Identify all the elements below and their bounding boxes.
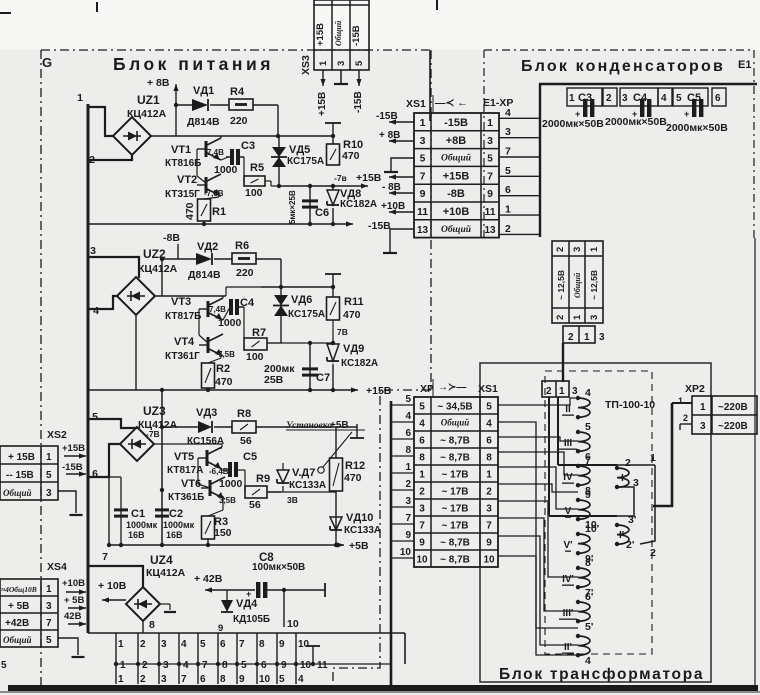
svg-text:КС182А: КС182А: [341, 358, 378, 369]
svg-text:1: 1: [118, 674, 124, 685]
border transformer block: [480, 363, 711, 682]
wire XS4 pin7: [68, 621, 86, 626]
svg-text:2': 2': [626, 539, 634, 551]
svg-text:+15В: +15В: [62, 443, 85, 454]
svg-text:1: 1: [118, 639, 124, 650]
svg-text:R1: R1: [212, 206, 226, 218]
svg-text:~ 17В: ~ 17В: [442, 487, 469, 498]
capacitor C4 block: [632, 99, 651, 119]
svg-text:КТ315Г: КТ315Г: [165, 189, 200, 200]
wire VT5 collector: [154, 444, 222, 447]
label 5 margin: [1, 660, 7, 671]
svg-text:-7,5В: -7,5В: [204, 189, 224, 198]
svg-text:Е1: Е1: [738, 59, 751, 71]
svg-text:6': 6': [585, 591, 593, 603]
svg-text:-15В: -15В: [351, 25, 362, 46]
svg-text:220: 220: [230, 115, 248, 127]
label -15В XS2: [62, 462, 83, 473]
resistor R6: [232, 240, 281, 287]
svg-text:1000: 1000: [219, 478, 243, 490]
svg-text:V': V': [563, 540, 572, 551]
transformer winding V': [562, 523, 599, 565]
svg-text:ХР2: ХР2: [685, 383, 705, 395]
svg-text:5: 5: [46, 470, 52, 481]
svg-text:VT5: VT5: [174, 451, 194, 463]
svg-text:4: 4: [419, 419, 425, 430]
transistor VT3: [165, 296, 226, 322]
resistor R12 (trimmer): [318, 427, 365, 547]
svg-text:7В: 7В: [337, 327, 348, 337]
svg-text:8: 8: [220, 674, 226, 685]
wire pin4 to UZ2: [88, 296, 118, 309]
svg-text:8': 8': [585, 557, 593, 569]
svg-text:16В: 16В: [128, 530, 145, 540]
svg-text:2: 2: [546, 386, 552, 397]
wire mid out ch1: [279, 184, 368, 188]
label -15В out ch1: [368, 220, 391, 232]
svg-text:1: 1: [420, 117, 426, 129]
svg-text:7: 7: [181, 674, 187, 685]
svg-text:7: 7: [487, 170, 493, 182]
wire XP left stubs: [391, 394, 414, 558]
node 7: [102, 551, 108, 563]
transformer winding I: [615, 457, 639, 489]
svg-text:+15В: +15В: [315, 23, 326, 46]
wire ch3 vertical bus: [160, 388, 164, 547]
svg-text:4: 4: [585, 655, 591, 667]
svg-text:9: 9: [486, 538, 492, 549]
svg-text:7: 7: [486, 521, 492, 532]
svg-text:R12: R12: [345, 460, 365, 472]
label +15В XS2: [62, 443, 85, 454]
rectifier UZ4: [126, 587, 160, 621]
svg-text:VД1: VД1: [193, 85, 214, 97]
svg-text:2000мк×50В: 2000мк×50В: [542, 118, 604, 130]
svg-text:Общий: Общий: [3, 488, 32, 498]
resistor R2: [202, 363, 233, 392]
svg-text:470: 470: [344, 472, 362, 484]
svg-text:VT1: VT1: [171, 144, 191, 156]
svg-text:Д814В: Д814В: [187, 116, 220, 128]
capacitor C5: [219, 447, 257, 490]
svg-text:КТ361Г: КТ361Г: [165, 351, 200, 362]
svg-text:5: 5: [354, 60, 365, 66]
border right edge: [754, 238, 756, 685]
zener VD9 КС182А: [327, 343, 378, 392]
svg-text:100мк×50В: 100мк×50В: [252, 562, 305, 573]
wire XP2 feed: [653, 403, 692, 506]
svg-text:R11: R11: [344, 296, 364, 308]
svg-text:5: 5: [420, 154, 426, 165]
svg-text:42В: 42В: [64, 611, 82, 622]
svg-text:100: 100: [245, 187, 263, 199]
resistor R8: [232, 408, 357, 447]
label -7В ch3: [146, 429, 160, 439]
wire XS2 pin5: [66, 471, 86, 476]
svg-text:25В: 25В: [264, 374, 284, 386]
svg-text:+15В: +15В: [443, 170, 470, 182]
svg-text:16В: 16В: [166, 530, 183, 540]
svg-text:2: 2: [606, 93, 612, 104]
svg-text:2000мк×50В: 2000мк×50В: [605, 116, 667, 128]
svg-text:7: 7: [405, 513, 411, 524]
capacitor C7: [302, 341, 330, 392]
svg-text:-7В: -7В: [146, 429, 160, 439]
svg-text:5: 5: [486, 402, 492, 413]
svg-text:150: 150: [214, 527, 232, 539]
svg-text:-15В: -15В: [444, 117, 468, 129]
svg-text:10: 10: [416, 555, 428, 566]
transformer winding III': [559, 591, 593, 633]
svg-text:-8В: -8В: [163, 232, 180, 244]
svg-text:4: 4: [181, 639, 187, 650]
svg-text:II': II': [564, 642, 572, 653]
label -15В row1: [376, 111, 398, 122]
svg-text:КС175А: КС175А: [288, 309, 325, 320]
svg-text:1: 1: [505, 204, 511, 216]
wire +8V arrow up ch1: [173, 84, 178, 136]
wire VT3 collector: [223, 287, 261, 298]
svg-text:9: 9: [419, 538, 425, 549]
wire ch3 left down: [107, 444, 111, 547]
label UZ1: [127, 93, 167, 120]
svg-text:Общий: Общий: [441, 224, 471, 235]
svg-text:470: 470: [215, 376, 233, 388]
svg-text:IV: IV: [563, 472, 573, 483]
svg-text:R5: R5: [250, 162, 264, 174]
wire R5 to output: [265, 181, 279, 186]
svg-text:+42В: +42В: [5, 618, 29, 629]
svg-text:VД9: VД9: [343, 343, 364, 355]
svg-text:КТ816Б: КТ816Б: [165, 158, 201, 169]
capacitor C5 block: [684, 99, 703, 119]
svg-text:~ 12,5В: ~ 12,5В: [556, 270, 566, 300]
node 11 terminal: [306, 646, 328, 671]
svg-text:+15В: +15В: [366, 385, 392, 397]
svg-text:5мк×25В: 5мк×25В: [288, 190, 297, 224]
wire XP1 to transformer: [562, 343, 564, 382]
svg-text:VД4: VД4: [236, 598, 258, 610]
capacitor C2: [155, 461, 195, 540]
svg-text:2: 2: [486, 487, 492, 498]
svg-text:I': I': [619, 530, 624, 541]
node 4: [93, 305, 99, 317]
svg-text:1: 1: [77, 92, 83, 104]
svg-text:С2: С2: [169, 508, 183, 520]
svg-text:1: 1: [584, 332, 590, 343]
wire bottom rail ch2: [88, 315, 358, 393]
label XP header: [420, 379, 498, 397]
svg-text:I: I: [621, 473, 624, 484]
capacitor C4: [218, 297, 255, 329]
svg-text:1: 1: [419, 470, 425, 481]
svg-text:3: 3: [46, 601, 52, 612]
svg-text:С5: С5: [243, 451, 257, 463]
zener VD10 КС133А: [330, 512, 381, 536]
rectifier UZ2: [117, 277, 155, 315]
svg-text:1: 1: [589, 246, 600, 252]
svg-text:3В: 3В: [287, 495, 298, 505]
svg-text:~ 34,5В: ~ 34,5В: [437, 402, 472, 413]
wire bottom rail ch3: [109, 542, 344, 547]
svg-text:1: 1: [678, 396, 683, 406]
label -7в +15В: [334, 172, 382, 184]
label +15В out ch2: [366, 385, 392, 397]
svg-text:VT4: VT4: [174, 336, 195, 348]
wire XP mating line: [116, 663, 391, 665]
svg-text:Общий: Общий: [334, 20, 343, 46]
svg-text:3: 3: [405, 496, 411, 507]
title Блок питания: [113, 54, 274, 74]
wire E1 bus vertical: [539, 84, 541, 237]
transistor VT5: [167, 447, 229, 476]
wire XS3 to XS1 vertical: [429, 51, 431, 121]
rectifier UZ1: [113, 117, 151, 155]
capacitor C8: [205, 552, 325, 599]
label +5В XS4: [64, 595, 84, 606]
wire row9 arrow: [389, 190, 414, 195]
svg-text:2: 2: [555, 315, 566, 320]
svg-text:6: 6: [505, 184, 511, 196]
svg-text:2: 2: [568, 332, 574, 343]
connector XP2: [692, 396, 757, 434]
svg-text:КТ817Б: КТ817Б: [165, 311, 201, 322]
svg-text:9: 9: [487, 188, 493, 200]
resistor R7: [244, 327, 267, 363]
wire -15V from XS3 pin5: [356, 70, 361, 86]
svg-text:1: 1: [569, 93, 575, 104]
svg-text:6: 6: [92, 468, 98, 480]
svg-text:IV': IV': [562, 574, 574, 585]
svg-text:Общий: Общий: [441, 153, 471, 164]
label +15В vertical: [317, 92, 328, 116]
svg-text:VT3: VT3: [171, 296, 191, 308]
svg-text:3: 3: [505, 126, 511, 138]
zener VD6 КС175А: [273, 287, 325, 343]
svg-text:8: 8: [149, 619, 155, 631]
svg-text:КЦ412А: КЦ412А: [146, 567, 186, 579]
svg-text:XS4: XS4: [47, 561, 67, 573]
svg-text:R8: R8: [237, 408, 251, 420]
svg-text:3: 3: [420, 135, 426, 147]
svg-text:~ 17В: ~ 17В: [442, 504, 469, 515]
arrow +10V left ch4: [102, 597, 126, 604]
resistor R3: [202, 516, 232, 547]
svg-text:3: 3: [622, 93, 628, 104]
svg-text:6: 6: [405, 428, 411, 439]
svg-text:→≻—: →≻—: [438, 382, 466, 393]
capacitor C3 block: [575, 99, 594, 119]
svg-text:VT2: VT2: [177, 174, 197, 186]
svg-text:Общий: Общий: [441, 418, 470, 428]
transistor VT6: [168, 477, 236, 505]
svg-text:5: 5: [200, 639, 206, 650]
svg-text:2: 2: [142, 660, 148, 671]
svg-text:2: 2: [140, 639, 146, 650]
svg-text:3: 3: [589, 315, 600, 320]
wire rail ch1: [151, 134, 335, 138]
svg-text:13: 13: [484, 225, 496, 236]
svg-text:1000мк: 1000мк: [163, 520, 195, 530]
wire row1 arrow: [389, 119, 414, 124]
svg-text:+ 15В: + 15В: [8, 452, 35, 463]
label Установка +5В: [286, 420, 365, 431]
svg-text:2: 2: [650, 547, 656, 559]
wire C5 column: [244, 470, 246, 492]
capacitor C3: [214, 140, 255, 176]
svg-text:10: 10: [287, 618, 299, 630]
connector XS4: [0, 561, 67, 647]
svg-text:XS1: XS1: [406, 98, 426, 110]
svg-text:7: 7: [46, 618, 52, 629]
svg-text:10: 10: [483, 555, 495, 566]
capacitor C6: [288, 184, 329, 226]
svg-text:+8В: +8В: [446, 135, 467, 147]
svg-text:470: 470: [184, 202, 196, 220]
svg-text:UZ1: UZ1: [137, 93, 160, 107]
resistor R5: [244, 162, 265, 199]
diode VD4 КД105Б: [218, 590, 270, 634]
wire row7 arrow: [389, 174, 414, 179]
transformer winding IV': [562, 557, 593, 599]
label +10В XS4: [62, 578, 85, 589]
svg-text:-15В: -15В: [368, 220, 391, 232]
svg-text:3: 3: [161, 674, 167, 685]
svg-text:220: 220: [236, 267, 254, 279]
svg-text:Общий: Общий: [3, 635, 32, 645]
transformer winding V: [562, 489, 597, 531]
label UZ3: [138, 404, 178, 431]
svg-text:Общий: Общий: [573, 272, 582, 298]
label +42В ch4: [194, 573, 223, 585]
svg-text:С6: С6: [315, 207, 329, 219]
corner mark top-middle: [436, 0, 438, 10]
wire VT6 emitter to R3: [208, 496, 223, 516]
svg-text:6: 6: [200, 674, 206, 685]
svg-text:2: 2: [625, 457, 631, 469]
svg-text:1: 1: [572, 314, 583, 320]
svg-text:UZ4: UZ4: [150, 553, 173, 567]
wire pin6 to UZ3: [88, 444, 121, 477]
svg-text:1: 1: [120, 660, 126, 671]
node 3: [90, 245, 96, 257]
svg-text:~ 17В: ~ 17В: [442, 521, 469, 532]
label C4 value: [605, 116, 667, 128]
svg-text:10: 10: [298, 639, 310, 650]
label -8В row9: [382, 182, 401, 193]
svg-text:≈4Общ10В: ≈4Общ10В: [1, 585, 37, 594]
label XP2: [678, 383, 705, 423]
svg-text:4: 4: [661, 93, 667, 104]
svg-text:3: 3: [572, 247, 583, 252]
label +15В row7: [0, 0, 1, 1]
transformer winding II': [562, 634, 591, 667]
resistor R11: [325, 274, 364, 337]
svg-text:~ 17В: ~ 17В: [442, 470, 469, 481]
corner mark top-left: [0, 2, 97, 13]
svg-text:V.Д7: V.Д7: [292, 467, 315, 479]
wire XS1 right stubs to E1: [499, 107, 541, 235]
node 6: [92, 468, 98, 480]
svg-text:VД3: VД3: [196, 407, 217, 419]
svg-text:1: 1: [487, 117, 493, 129]
svg-text:КЦ412А: КЦ412А: [138, 263, 178, 275]
capacitor block terminals: [567, 88, 726, 106]
svg-text:9: 9: [420, 188, 426, 200]
svg-text:6: 6: [486, 436, 492, 447]
svg-text:7: 7: [420, 170, 426, 182]
svg-text:С3: С3: [241, 140, 255, 152]
svg-text:-8В: -8В: [447, 188, 465, 200]
svg-text:R6: R6: [235, 240, 249, 252]
svg-text:III': III': [563, 608, 574, 619]
svg-text:1: 1: [46, 584, 52, 595]
svg-text:+15В: +15В: [356, 172, 382, 184]
svg-text:~ 12,5В: ~ 12,5В: [589, 270, 599, 300]
svg-text:R7: R7: [252, 327, 266, 339]
zener VD8 КС182А: [327, 186, 377, 226]
svg-text:3: 3: [46, 488, 52, 499]
svg-text:VД5: VД5: [289, 144, 310, 156]
resistor R9: [245, 473, 281, 511]
zener VD7 КС133А: [267, 463, 326, 505]
resistor R10: [325, 123, 363, 165]
svg-text:2: 2: [683, 413, 688, 423]
svg-text:2: 2: [140, 674, 146, 685]
svg-text:9: 9: [279, 639, 285, 650]
transformer winding I': [615, 514, 637, 551]
connector XP1 plug: [563, 326, 605, 343]
transistor VT1: [165, 138, 224, 169]
svg-text:4: 4: [585, 387, 591, 399]
wire pin3 to UZ2: [88, 257, 139, 278]
svg-text:G: G: [42, 55, 52, 70]
svg-text:3: 3: [336, 61, 347, 66]
svg-text:1: 1: [486, 470, 492, 481]
wire mid ch2: [281, 320, 335, 345]
wire set terminal: [350, 424, 364, 438]
border frame of power supply block (dash-dot): [41, 50, 431, 686]
ground at XS3 pin3: [334, 70, 348, 84]
rectifier UZ3: [120, 427, 154, 461]
svg-text:-7в: -7в: [334, 173, 347, 183]
svg-text:+ 10В: + 10В: [98, 580, 127, 592]
wire VT1 collector: [220, 136, 222, 138]
label C5 value: [666, 122, 728, 134]
svg-text:ТП-100-10: ТП-100-10: [605, 399, 655, 411]
wire XP2 pin2 stub: [680, 424, 692, 430]
wire cap block top bus: [539, 83, 757, 86]
svg-text:7: 7: [102, 551, 108, 563]
svg-text:-15В: -15В: [353, 91, 364, 113]
svg-text:+5В: +5В: [330, 420, 349, 431]
transformer winding III: [559, 421, 591, 463]
svg-text:~220В: ~220В: [718, 421, 748, 432]
wire base link VT5-VT6: [198, 458, 210, 488]
label 42В XS4: [64, 611, 82, 622]
svg-text:1000мк: 1000мк: [126, 520, 158, 530]
svg-text:470: 470: [342, 150, 360, 162]
svg-text:КТ361Б: КТ361Б: [168, 492, 204, 503]
zener VD5 КС175А: [271, 136, 324, 188]
wire base link VT1-VT2: [197, 149, 206, 183]
wire XS2 pin1: [64, 453, 86, 458]
svg-text:С1: С1: [131, 508, 145, 520]
transformer winding II: [562, 387, 591, 419]
svg-text:1: 1: [559, 386, 565, 397]
svg-text:—≺ ←: —≺ ←: [435, 97, 468, 109]
svg-text:7: 7: [239, 639, 245, 650]
